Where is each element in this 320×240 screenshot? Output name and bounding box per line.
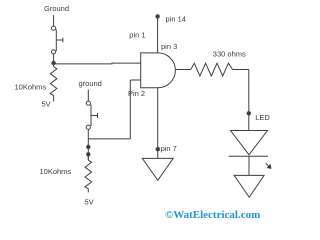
resistor R2 10Kohms <box>85 156 92 192</box>
ground symbol (LED) <box>234 175 264 197</box>
wire R3 to corner <box>233 69 249 71</box>
wire gate bottom to pin 7 <box>157 88 159 148</box>
switch S2 bottom terminal <box>86 125 90 129</box>
svg-text:10Kohms: 10Kohms <box>40 167 72 176</box>
switch S2 top terminal <box>86 101 90 105</box>
resistor R1 10Kohms <box>50 63 57 102</box>
svg-text:5V: 5V <box>85 198 94 207</box>
pin 7 terminal dot <box>156 147 160 151</box>
wire S1 to node A <box>53 54 55 62</box>
svg-text:10Kohms: 10Kohms <box>15 83 47 92</box>
pin 14 terminal dot <box>155 14 159 18</box>
switch S1 actuator <box>56 38 63 43</box>
wire ground lead S1 <box>53 15 55 26</box>
wire corner down to LED <box>248 70 250 112</box>
svg-text:5V: 5V <box>42 100 51 109</box>
svg-text:ground: ground <box>79 79 102 88</box>
wire pin 7 to ground symbol <box>157 151 159 158</box>
wire node A to gate pin 1 <box>54 62 141 65</box>
switch S1 bottom terminal <box>52 50 56 54</box>
svg-text:LED: LED <box>255 113 270 122</box>
svg-text:pin 14: pin 14 <box>166 15 186 24</box>
AND gate U1 <box>141 53 176 88</box>
node B junction dot <box>86 145 90 149</box>
wire pin 2 into gate <box>130 79 140 81</box>
LED cathode bar <box>229 155 269 157</box>
svg-text:Pin 2: Pin 2 <box>128 89 145 98</box>
node A junction dot <box>51 61 55 65</box>
wire ground lead S2 <box>87 90 89 102</box>
LED anode dot <box>247 111 251 115</box>
switch S2 lever bar <box>90 105 92 127</box>
wire branch to pin 2 (horizontal) <box>88 138 130 140</box>
ground symbol (pin 7) <box>142 158 173 180</box>
wire gate pin 3 output <box>175 69 190 71</box>
switch S1 top terminal <box>52 26 56 30</box>
wire pin 2 vertical riser <box>129 80 131 139</box>
LED emission arrow <box>266 163 271 168</box>
svg-text:pin 1: pin 1 <box>129 30 145 39</box>
switch S1 lever bar <box>55 30 57 52</box>
wire pin 14 to gate top <box>157 18 159 53</box>
LED D1 triangle <box>231 131 268 155</box>
resistor R3 330 ohms <box>191 63 233 76</box>
wire S2 down to resistor R2 <box>87 129 89 160</box>
wire LED to ground symbol <box>248 156 250 175</box>
switch S2 actuator <box>91 113 98 118</box>
svg-text:Ground: Ground <box>44 4 69 13</box>
svg-text:pin 3: pin 3 <box>161 42 177 51</box>
svg-text:pin 7: pin 7 <box>161 144 177 153</box>
wire dot to LED triangle <box>248 115 250 130</box>
svg-text:330 ohms: 330 ohms <box>213 50 246 59</box>
svg-text:©WatElectrical.com: ©WatElectrical.com <box>165 209 260 221</box>
node C junction dot <box>86 152 90 156</box>
